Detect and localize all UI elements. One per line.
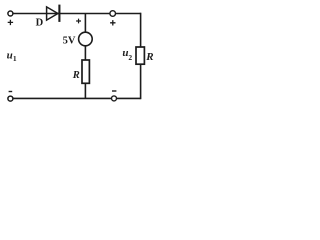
terminal input top-left	[8, 11, 13, 16]
label - input polarity	[9, 91, 13, 93]
wire 5V branch lower (resistor R to bottom rail)	[84, 83, 86, 98]
terminal output bottom	[112, 96, 117, 101]
label u2	[122, 47, 132, 62]
label u1	[7, 50, 17, 64]
wire bottom rail	[13, 97, 141, 99]
svg-text:R: R	[72, 70, 80, 81]
label + input polarity	[8, 20, 13, 25]
label + 5V source polarity	[76, 19, 81, 24]
resistor R middle branch	[82, 60, 89, 83]
terminal output top	[110, 11, 116, 17]
voltage source 5V circle	[79, 32, 93, 46]
svg-text:u: u	[7, 50, 13, 62]
label + output polarity	[110, 20, 115, 25]
svg-text:1: 1	[13, 54, 17, 63]
wire right branch lower (load resistor to bottom rail)	[140, 64, 142, 99]
resistor R load (right branch)	[136, 47, 144, 64]
svg-text:2: 2	[128, 53, 132, 62]
svg-text:5V: 5V	[63, 35, 76, 46]
wire top rail (input to right corner)	[13, 13, 141, 15]
svg-text:R: R	[145, 51, 153, 63]
label - output polarity	[112, 90, 116, 92]
wire right branch upper (corner down to load resistor)	[140, 13, 142, 48]
terminal input bottom-left	[8, 96, 13, 101]
wire 5V branch middle (source to resistor R)	[84, 46, 86, 61]
diode D triangle	[47, 7, 58, 20]
wire 5V branch upper (top rail tap to source)	[84, 14, 86, 33]
diode D cathode bar	[58, 5, 60, 22]
svg-text:D: D	[36, 18, 44, 29]
